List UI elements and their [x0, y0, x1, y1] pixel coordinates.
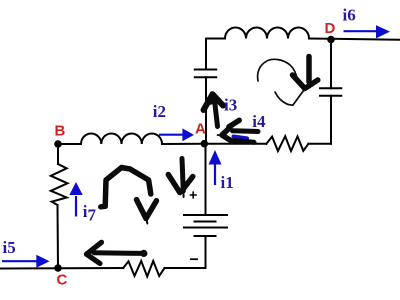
svg-text:i2: i2 — [153, 102, 166, 121]
svg-text:i1: i1 — [221, 173, 234, 192]
svg-text:D: D — [325, 20, 336, 37]
svg-text:i5: i5 — [3, 238, 16, 257]
svg-text:i3: i3 — [224, 96, 237, 115]
svg-text:A: A — [195, 121, 206, 138]
svg-text:i6: i6 — [343, 5, 356, 24]
svg-text:C: C — [57, 272, 68, 289]
svg-text:i4: i4 — [252, 112, 266, 131]
svg-text:B: B — [55, 123, 66, 140]
